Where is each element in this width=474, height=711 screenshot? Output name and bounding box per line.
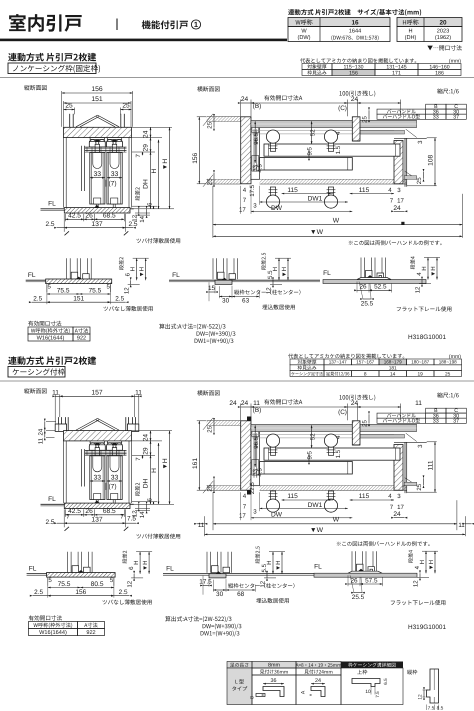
svg-text:11: 11 (135, 390, 142, 397)
door stubs 2 (212, 258, 214, 279)
svg-text:▼W: ▼W (310, 527, 324, 534)
dim 24 left jamb (241, 102, 251, 104)
svg-text:37: 37 (453, 419, 459, 425)
svg-text:24: 24 (393, 511, 401, 518)
pocket mouth jamb hatched (352, 117, 360, 141)
svg-text:25: 25 (362, 420, 369, 427)
dim DH (150, 152, 152, 209)
svg-text:9.5: 9.5 (307, 146, 314, 155)
svg-text:29: 29 (143, 144, 150, 152)
break lines above lintel (76, 418, 98, 430)
dim 24 post (394, 210, 405, 212)
note (104, 306, 153, 311)
svg-text:4.5: 4.5 (256, 467, 263, 476)
left jamb hatched (241, 421, 251, 490)
svg-text:2.5: 2.5 (45, 221, 54, 228)
underfloor dims 42.5 26 68.5 (64, 214, 66, 222)
floor detail right dims (119, 257, 124, 270)
size table title (288, 9, 421, 16)
dim 24 pocket mouth (347, 102, 357, 104)
break marks right (406, 129, 417, 137)
svg-text:11: 11 (37, 437, 44, 444)
door stubs 3 (360, 258, 362, 279)
svg-text:75.5: 75.5 (58, 581, 71, 588)
dim 29 track (150, 441, 152, 455)
svg-text:25.5: 25.5 (361, 301, 374, 308)
svg-text:151: 151 (91, 96, 103, 103)
svg-text:9.5: 9.5 (307, 450, 314, 459)
svg-text:80.5: 80.5 (91, 581, 104, 588)
lintel hatched (64, 431, 132, 441)
dim total (46, 284, 48, 304)
svg-text:108: 108 (427, 154, 434, 165)
dims 30 and offset (219, 296, 232, 298)
break marks left (203, 418, 213, 430)
svg-text:8: 8 (364, 371, 367, 377)
svg-text:3: 3 (417, 140, 424, 144)
svg-text:▼H: ▼H (142, 560, 149, 570)
section title 連動方式 (8, 356, 96, 365)
wall studs (57, 417, 59, 424)
note 3 (391, 600, 446, 605)
svg-text:W: W (333, 517, 340, 524)
svg-text:156: 156 (349, 70, 358, 76)
svg-text:12: 12 (123, 287, 130, 294)
svg-text:52: 52 (309, 129, 316, 136)
svg-text:12: 12 (266, 287, 273, 294)
pocket mouth jamb hatched (352, 421, 360, 445)
head track band (251, 424, 417, 431)
dim 25 near left (213, 117, 215, 128)
section subtitle box (8, 63, 96, 74)
dims 26 52.5 (356, 282, 358, 293)
dim 9.5 (308, 457, 310, 461)
note sill type (137, 238, 181, 243)
svg-text:1.5: 1.5 (335, 145, 342, 154)
dim opening A (251, 102, 347, 104)
svg-text:H: H (130, 267, 137, 271)
svg-text:25: 25 (445, 371, 451, 377)
dim open H (169, 128, 171, 209)
svg-text:25: 25 (207, 178, 214, 185)
left wall near face (207, 420, 241, 422)
svg-text:24: 24 (241, 400, 249, 407)
section divider 2 (0, 380, 474, 382)
dim wall thickness left (197, 116, 206, 118)
svg-text:25: 25 (416, 483, 423, 490)
casing head right (127, 424, 138, 431)
dim 137 (63, 509, 65, 527)
svg-text:DH: DH (143, 179, 150, 189)
svg-text:▼H: ▼H (162, 458, 169, 470)
door stubs 2 (206, 552, 208, 573)
dim 108 pocket depth (427, 137, 437, 139)
svg-text:FL: FL (48, 496, 56, 503)
dim 96.5 (254, 121, 256, 163)
dim 24 post (394, 517, 405, 519)
sill hatched (64, 208, 130, 213)
note sill type (137, 534, 181, 539)
dim 137 (63, 214, 65, 232)
svg-text:DW1: DW1 (308, 196, 323, 203)
dim 7 (142, 152, 144, 155)
wall studs (69, 114, 71, 128)
svg-text:24: 24 (37, 428, 44, 435)
hanger rollers (90, 138, 104, 140)
door rear strip (264, 144, 400, 156)
svg-text:922: 922 (86, 630, 95, 636)
dim 25 left (74, 108, 76, 115)
dim 25 pocket mouth (368, 110, 370, 119)
svg-text:7.5: 7.5 (428, 706, 435, 711)
svg-text:FL: FL (48, 201, 56, 208)
svg-text:H: H (151, 168, 158, 173)
handle table (426, 408, 446, 413)
flat rail (348, 571, 382, 573)
pocket inner band (360, 434, 405, 438)
svg-text:FL: FL (172, 272, 180, 279)
thin sill hatched (46, 279, 112, 284)
label 縦断面図 (24, 85, 47, 90)
dim 52 (311, 121, 313, 144)
svg-text:157: 157 (91, 390, 103, 397)
svg-text:115: 115 (287, 493, 298, 500)
svg-text:14: 14 (390, 371, 396, 377)
svg-text:H: H (408, 29, 412, 35)
svg-text:FL: FL (166, 566, 174, 573)
svg-text:26: 26 (359, 284, 367, 291)
right ext lines (132, 126, 172, 128)
casing head left (55, 424, 66, 431)
svg-text:DH: DH (143, 478, 150, 488)
svg-text:H319G10001: H319G10001 (408, 624, 446, 631)
svg-text:137: 137 (91, 517, 103, 524)
floor line (41, 503, 65, 505)
floor lines 2 (163, 573, 314, 575)
svg-text:H: H (133, 560, 140, 564)
svg-text:151: 151 (73, 296, 84, 303)
svg-text:7: 7 (243, 197, 247, 204)
svg-text:17.5: 17.5 (199, 579, 212, 586)
svg-text:25: 25 (416, 177, 423, 184)
dim 9.5 (308, 153, 310, 157)
svg-text:H318G10001: H318G10001 (408, 334, 446, 341)
dim 25 pocket end (423, 172, 425, 179)
floor detail right dims (261, 253, 266, 270)
svg-text:H: H (419, 560, 426, 564)
dim DW (251, 210, 352, 212)
scale note (437, 88, 459, 94)
svg-text:FL: FL (323, 270, 331, 277)
end slashes (65, 527, 70, 531)
svg-text:188~198: 188~198 (439, 360, 457, 365)
floor detail right dims (410, 256, 415, 269)
sill hatched (64, 503, 130, 508)
track assembly (85, 146, 127, 148)
svg-text:12: 12 (127, 580, 134, 587)
dim 100 hikinokoshi (358, 102, 401, 104)
left frame verticals (81, 146, 83, 191)
svg-text:4.5: 4.5 (256, 163, 263, 172)
svg-text:7: 7 (243, 504, 247, 511)
near face pocket line (394, 137, 427, 139)
floor detail right dims (122, 551, 127, 564)
svg-text:25: 25 (207, 484, 214, 491)
node on W line (401, 222, 404, 225)
svg-text:30: 30 (216, 591, 224, 598)
left wall far face (207, 178, 241, 180)
dim 29 track (150, 138, 152, 152)
svg-text:157~167: 157~167 (356, 360, 374, 365)
svg-text:57.5: 57.5 (365, 577, 378, 584)
svg-text:4: 4 (243, 187, 247, 194)
dim 24 lintel (150, 431, 152, 441)
svg-text:115: 115 (287, 187, 298, 194)
floor lines (26, 279, 46, 281)
floor lines (27, 573, 47, 575)
svg-text:25: 25 (122, 103, 130, 110)
size table (288, 18, 390, 27)
svg-text:(DW): (DW) (297, 34, 310, 41)
svg-text:115: 115 (359, 493, 370, 500)
dim door thickness 33 33 (90, 177, 105, 179)
svg-text:96.5: 96.5 (253, 132, 260, 144)
svg-text:(7): (7) (108, 484, 116, 491)
dim 25 far left (213, 173, 215, 184)
door panel rear (107, 456, 122, 500)
svg-text:52: 52 (309, 433, 316, 440)
svg-text:168~179: 168~179 (384, 360, 402, 365)
svg-text:186: 186 (435, 70, 444, 76)
dim 12 14 below floor (135, 212, 150, 214)
svg-text:25: 25 (207, 121, 214, 128)
svg-text:75.5: 75.5 (89, 287, 102, 294)
svg-text:2.5: 2.5 (119, 589, 128, 596)
top ext lines (240, 404, 242, 421)
dim 6 (132, 205, 157, 207)
door front strip (260, 158, 353, 171)
pocket far band (404, 482, 417, 485)
svg-text:33: 33 (111, 474, 119, 481)
svg-text:24: 24 (143, 434, 150, 442)
svg-text:17: 17 (239, 206, 246, 213)
label 有効開口寸法 (29, 615, 62, 620)
svg-text:(B): (B) (253, 103, 262, 110)
scale note (437, 392, 459, 398)
svg-text:68: 68 (237, 591, 245, 598)
dim 25 far left (213, 479, 215, 490)
dim W (212, 492, 214, 530)
output table (28, 327, 73, 334)
svg-text:33: 33 (94, 474, 102, 481)
formulas (165, 616, 231, 622)
svg-text:922: 922 (77, 336, 86, 342)
dim DH (150, 455, 152, 504)
break marks left (203, 114, 213, 126)
flat rail (357, 278, 391, 280)
right ext lines (132, 430, 172, 432)
svg-text:DW1: DW1 (308, 502, 323, 509)
svg-text:17: 17 (397, 198, 404, 205)
far wall face long (260, 178, 407, 180)
svg-text:12: 12 (413, 580, 420, 587)
hanger rollers (90, 441, 104, 443)
label 横断面図 (197, 86, 220, 91)
svg-text:161: 161 (192, 458, 199, 469)
floor band 3 (323, 280, 426, 284)
svg-text:63: 63 (242, 297, 250, 304)
dim 52 (311, 425, 313, 448)
footer cell borders (252, 675, 296, 705)
floor detail right dims (255, 546, 260, 563)
svg-text:FL: FL (28, 272, 36, 279)
svg-text:▼H: ▼H (281, 267, 288, 277)
dim 100 hikinokoshi (358, 406, 401, 408)
legend 開口寸法 (427, 45, 461, 50)
svg-text:68.5: 68.5 (103, 213, 116, 220)
dim 108 pocket depth (427, 441, 437, 443)
note (103, 599, 152, 604)
svg-text:20: 20 (439, 20, 447, 27)
svg-text:7: 7 (66, 514, 70, 521)
svg-text:24: 24 (229, 400, 237, 407)
detail 縦枠 (407, 670, 417, 675)
floor band 3 (314, 573, 417, 577)
casing side dims 24 11 (46, 420, 56, 422)
dim open W (205, 533, 466, 535)
svg-text:2.5: 2.5 (33, 296, 42, 303)
dims 26 52.5 (347, 575, 349, 586)
svg-text:6: 6 (125, 272, 132, 276)
svg-text:1.5: 1.5 (335, 449, 342, 458)
svg-text:2.5: 2.5 (115, 296, 124, 303)
svg-text:2.5: 2.5 (34, 589, 43, 596)
svg-text:156: 156 (91, 86, 103, 93)
svg-text:16: 16 (351, 20, 359, 27)
floor detail right dims (408, 550, 413, 563)
right bottom dims 115 (350, 499, 394, 501)
dim 115 DW1 (282, 193, 333, 195)
dim 24 pocket mouth (347, 406, 357, 408)
svg-text:75.5: 75.5 (57, 287, 70, 294)
svg-text:W: W (333, 217, 340, 224)
svg-text:25: 25 (207, 425, 214, 432)
svg-text:7.5: 7.5 (375, 691, 380, 698)
note both-side handles (349, 240, 442, 245)
svg-text:12: 12 (131, 214, 138, 221)
svg-text:11: 11 (52, 390, 59, 397)
svg-text:37: 37 (453, 115, 459, 121)
label 横断面図 (197, 390, 220, 395)
top ext lines (240, 100, 242, 117)
svg-text:2.5: 2.5 (45, 519, 54, 526)
left frame verticals (81, 449, 83, 486)
svg-text:36: 36 (271, 678, 277, 684)
dim 25.5 (350, 575, 354, 593)
svg-text:H: H (151, 468, 158, 473)
dim open H (169, 431, 171, 505)
page title 室内引戸 (9, 14, 82, 32)
dim open W (213, 235, 463, 237)
far wall face long (260, 485, 407, 487)
svg-text:26: 26 (85, 213, 93, 220)
dim 12 14 below floor (135, 508, 150, 510)
svg-text:7: 7 (120, 514, 124, 521)
svg-text:5: 5 (48, 284, 52, 291)
svg-text:8: 8 (250, 696, 256, 699)
svg-text:115: 115 (359, 187, 370, 194)
svg-text:14: 14 (139, 511, 146, 518)
svg-text:180~187: 180~187 (411, 360, 429, 365)
svg-text:25: 25 (362, 116, 369, 123)
detail 上枠 (357, 670, 367, 675)
svg-text:137~147: 137~147 (329, 360, 347, 365)
svg-text:33: 33 (111, 171, 119, 178)
svg-text:(7): (7) (108, 180, 116, 187)
svg-text:24: 24 (351, 96, 359, 103)
dim total (47, 578, 49, 598)
svg-text:24: 24 (241, 96, 249, 103)
door stubs 3 (351, 551, 353, 572)
svg-text:(DH): (DH) (405, 34, 417, 41)
svg-text:52.5: 52.5 (374, 284, 387, 291)
svg-text:17.5: 17.5 (249, 184, 256, 196)
note 代表として 2 (288, 354, 404, 359)
pocket far band (404, 176, 417, 179)
svg-text:▼H: ▼H (275, 560, 282, 570)
label 段差2 (135, 483, 140, 496)
svg-text:33: 33 (433, 419, 439, 425)
svg-text:30: 30 (222, 297, 230, 304)
dim 25 pocket mouth (368, 414, 370, 423)
svg-text:8.5: 8.5 (437, 706, 444, 711)
svg-text:24: 24 (393, 205, 401, 212)
lintel hatched (64, 127, 132, 137)
dim width total (61, 91, 63, 127)
svg-text:12: 12 (415, 286, 422, 293)
door panel front (90, 153, 105, 205)
svg-text:24: 24 (315, 678, 321, 684)
door rear strip (264, 448, 400, 460)
section title 連動方式 (8, 53, 96, 62)
svg-text:W16(1644): W16(1644) (39, 629, 67, 636)
svg-text:3: 3 (417, 444, 424, 448)
svg-text:6.5: 6.5 (383, 678, 388, 685)
svg-text:17: 17 (397, 504, 404, 511)
floor lines 2 (169, 279, 320, 281)
dim H (158, 140, 160, 209)
title divider (116, 19, 118, 31)
wall thickness table (332, 70, 375, 76)
svg-text:▼H: ▼H (428, 560, 435, 570)
dim width inner (63, 101, 65, 127)
svg-text:DW: DW (271, 205, 283, 212)
L profile 24 (311, 683, 325, 685)
floor line (41, 208, 65, 210)
svg-text:11: 11 (415, 400, 422, 407)
dim 6 (132, 501, 157, 503)
dim A (202, 576, 204, 595)
casing marks left jamb (247, 417, 251, 421)
near face pocket line (394, 441, 427, 443)
svg-text:W16(1644): W16(1644) (37, 335, 65, 342)
svg-text:42.5: 42.5 (68, 508, 81, 515)
dim 25 near left (213, 421, 215, 432)
left wall near face (207, 116, 241, 118)
dim width total (54, 394, 56, 423)
wall thickness table 2 (379, 359, 407, 365)
svg-text:5: 5 (107, 284, 111, 291)
